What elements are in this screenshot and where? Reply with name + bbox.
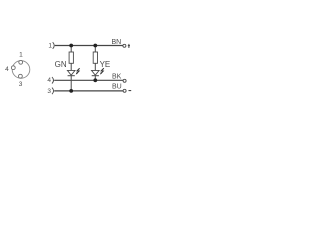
terminal 3 socket arc — [52, 88, 54, 95]
svg-text:BN: BN — [112, 39, 122, 46]
wire resistor R2 to LED YE — [94, 63, 96, 70]
svg-text:4: 4 — [5, 66, 9, 73]
resistor R2 — [93, 52, 97, 63]
wire 3 end terminal circle — [123, 89, 126, 92]
connector pin 3 hole — [19, 74, 23, 78]
wire 4 (BK, pin4) — [54, 79, 123, 81]
branch 1 vertical wire (GN LED branch) — [70, 46, 72, 53]
LED GN cathode bar — [68, 75, 75, 77]
plus sign (+) — [128, 44, 130, 48]
minus sign (-) — [129, 90, 132, 92]
node: junction dot wire1/branch2 — [93, 44, 97, 48]
node: junction dot branch1/wire3 — [69, 89, 73, 93]
svg-text:3: 3 — [19, 81, 23, 88]
node: junction dot wire1/branch1 — [69, 44, 73, 48]
LED GN (diode triangle) — [67, 70, 75, 75]
connector pin 1 hole — [19, 60, 23, 64]
connector pin 4 hole — [11, 66, 15, 70]
LED YE cathode bar — [92, 75, 99, 77]
svg-text:4: 4 — [47, 77, 51, 84]
wire 1 (BN, pin1) — [55, 45, 123, 47]
terminal 4 socket arc — [52, 77, 54, 84]
LED YE (diode triangle) — [92, 70, 100, 75]
node: junction dot branch2/wire4 — [93, 78, 97, 82]
svg-text:GN: GN — [55, 60, 67, 69]
LED YE flash arrow — [101, 68, 104, 73]
wire LED YE down to wire 4 — [94, 76, 96, 81]
wire resistor R1 to LED GN — [70, 63, 72, 70]
svg-text:YE: YE — [100, 60, 111, 69]
svg-text:BK: BK — [112, 74, 122, 81]
wire LED GN down to wire 3 (crosses wire 4) — [70, 76, 72, 91]
connector body circle — [12, 61, 30, 79]
terminal 1 socket arc — [53, 42, 55, 49]
svg-text:1: 1 — [48, 42, 52, 49]
wire 1 end terminal circle — [123, 44, 126, 47]
resistor R1 — [69, 52, 73, 63]
svg-text:BU: BU — [112, 84, 122, 91]
LED GN flash arrow — [77, 68, 80, 73]
wire 3 (BU, pin3) — [54, 90, 123, 92]
svg-text:1: 1 — [19, 52, 23, 59]
svg-text:3: 3 — [47, 88, 51, 95]
wire 4 end terminal circle — [123, 79, 126, 82]
branch 2 vertical wire (YE LED branch) — [94, 46, 96, 53]
